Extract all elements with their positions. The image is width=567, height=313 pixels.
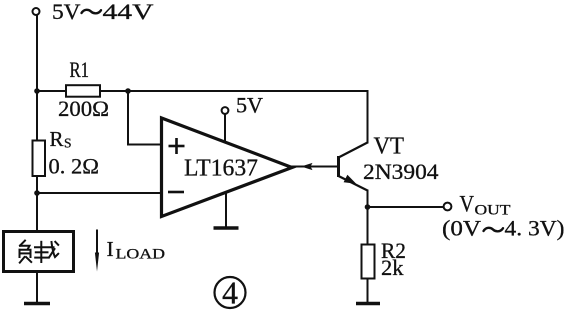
svg-text:LOAD: LOAD [116,247,166,263]
svg-text:V: V [460,192,475,217]
svg-text:R: R [50,127,64,151]
svg-text:S: S [64,136,72,151]
svg-text:0. 2Ω: 0. 2Ω [49,153,100,178]
svg-text:R1: R1 [70,57,90,82]
svg-text:4. 3V): 4. 3V) [505,216,565,241]
svg-text:5V: 5V [52,0,81,24]
svg-text:200Ω: 200Ω [58,96,109,121]
svg-text:LT1637: LT1637 [184,156,258,182]
svg-text:VT: VT [374,134,405,160]
svg-text:44V: 44V [103,0,154,24]
svg-text:2N3904: 2N3904 [363,159,439,184]
svg-text:I: I [107,237,114,261]
svg-text:2k: 2k [381,255,404,280]
svg-text:5V: 5V [236,93,263,118]
svg-text:(0V: (0V [442,216,481,241]
svg-text:4: 4 [222,275,238,311]
